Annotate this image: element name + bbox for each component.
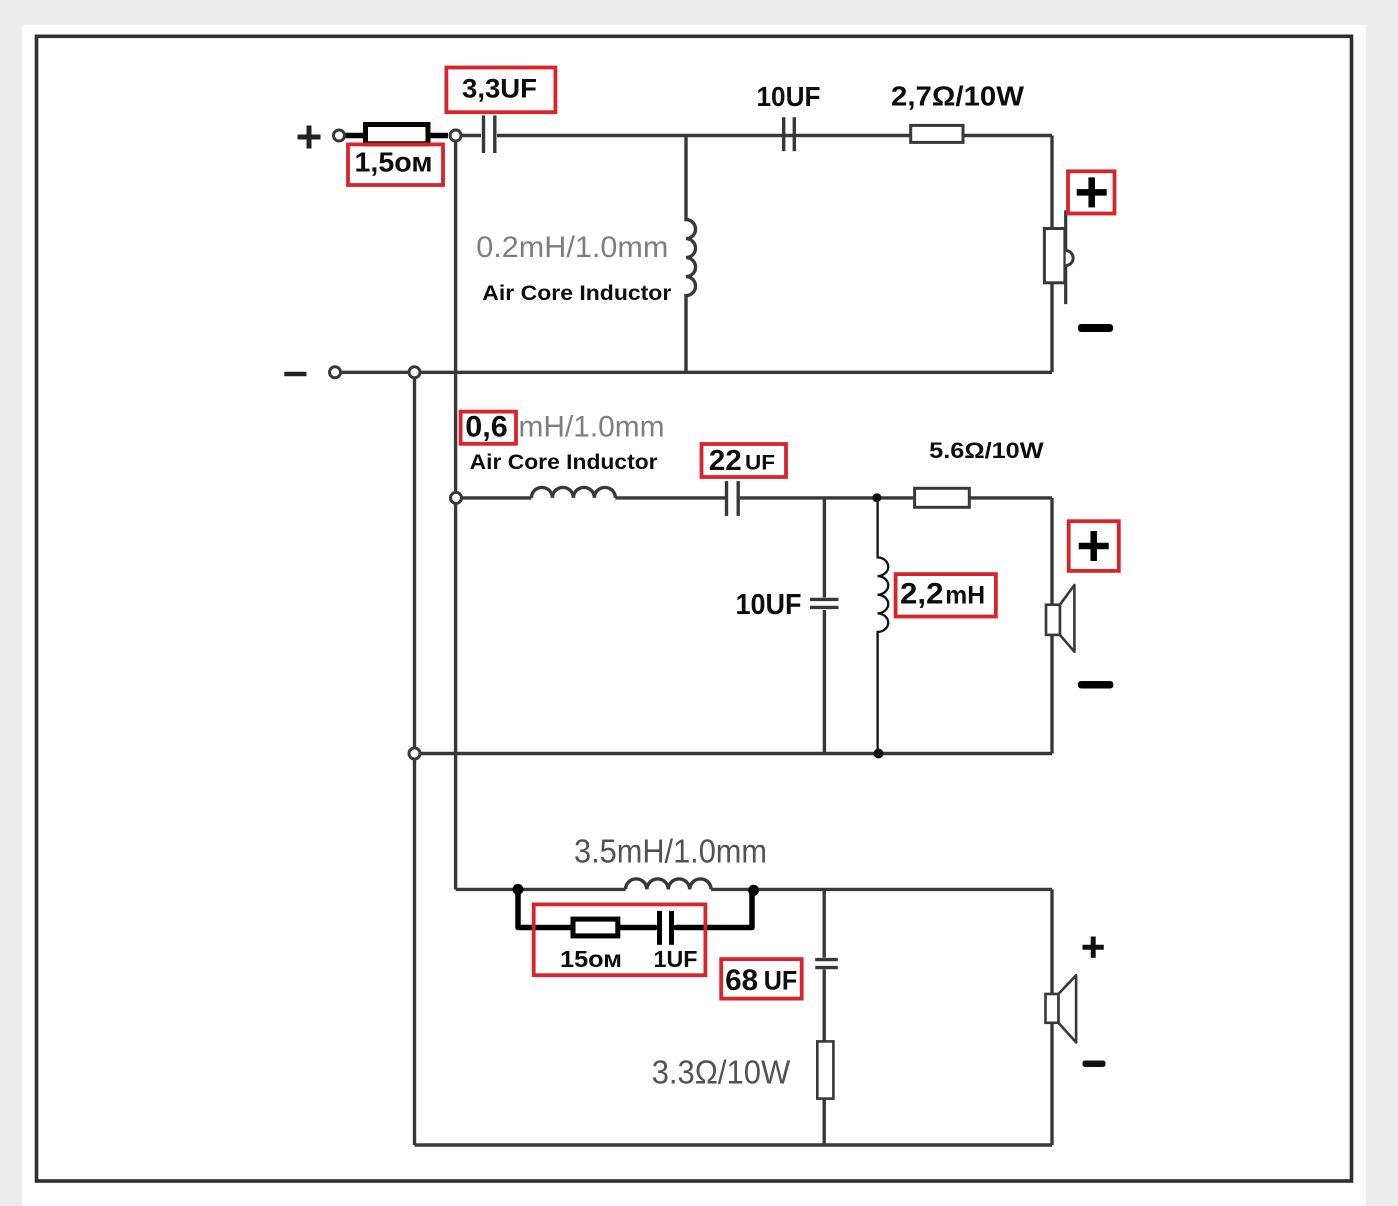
svg-text:mH/1.0mm: mH/1.0mm <box>519 411 665 444</box>
woofer plus polarity mark <box>1083 937 1104 958</box>
svg-text:10UF: 10UF <box>757 81 821 112</box>
tweeter minus polarity mark <box>1078 324 1113 332</box>
node: minus bus junction <box>409 367 420 378</box>
resistor R 15om (thick black) <box>573 919 618 936</box>
value label 0,6 (red boxed) + mH/1.0mm <box>461 411 665 444</box>
svg-text:3,3UF: 3,3UF <box>462 74 537 104</box>
capacitor C 22UF <box>727 481 739 516</box>
midrange minus polarity mark <box>1078 681 1113 689</box>
value label 3,3UF (red boxed) <box>446 68 555 113</box>
svg-text:UF: UF <box>745 451 775 475</box>
capacitor C 10UF (top) <box>784 117 795 151</box>
wire: woofer feed <box>456 888 626 891</box>
capacitor C 3,3UF <box>484 115 495 153</box>
value label 68UF (red boxed) <box>721 959 802 999</box>
inductor L1 0.2mH air core (vertical) <box>686 137 696 371</box>
svg-text:10UF: 10UF <box>736 589 802 621</box>
wire: 10UF shunt branch vertical <box>823 498 826 598</box>
resistor R 1,5om (thick black, added) <box>345 125 448 144</box>
tweeter speaker symbol <box>1044 210 1073 304</box>
plus input terminal symbol <box>298 126 321 149</box>
capacitor C 68UF <box>815 960 838 968</box>
polarity label + (red boxed, tweeter) <box>1068 171 1115 213</box>
wire: top rail from 3.3UF cap to top-right corner <box>497 134 1052 137</box>
minus input terminal symbol <box>284 372 306 377</box>
svg-text:1,5ом: 1,5ом <box>355 147 433 178</box>
svg-text:0.2mH/1.0mm: 0.2mH/1.0mm <box>476 231 668 264</box>
value labels 15om and 1UF (red boxed) <box>534 904 706 975</box>
wire: right vertical of tweeter loop <box>1050 136 1053 373</box>
capacitor C 1UF (thick black) <box>660 911 672 945</box>
wire: vertical bus B from minus node down to bottom rail <box>413 372 416 1145</box>
junction node dot (bottom of 2,2mH) <box>874 749 884 759</box>
value label 22UF (red boxed) <box>702 444 787 477</box>
wire: 68UF / 3.3ohm branch vertical <box>823 889 826 957</box>
capacitor C 10UF (mid shunt) <box>810 599 839 607</box>
value label 1,5om (red boxed) <box>348 144 443 185</box>
svg-text:mH: mH <box>945 582 985 610</box>
node: plus input terminal <box>334 130 345 141</box>
wire: midrange right vertical <box>1050 498 1053 754</box>
svg-text:15ом: 15ом <box>560 946 622 972</box>
svg-text:UF: UF <box>764 966 798 996</box>
svg-text:3.5mH/1.0mm: 3.5mH/1.0mm <box>574 833 767 870</box>
node: midrange input <box>451 492 462 503</box>
svg-text:5.6Ω/10W: 5.6Ω/10W <box>929 438 1044 463</box>
node: midrange bottom rail junction <box>409 748 420 759</box>
woofer speaker symbol <box>1046 975 1077 1042</box>
node: plus bus junction <box>450 130 461 141</box>
wire: node to 3.3UF cap <box>455 134 481 137</box>
svg-text:1UF: 1UF <box>654 946 698 972</box>
junction dot right of 3.5mH <box>748 885 759 896</box>
resistor R 2,7ohm/10W <box>911 125 963 142</box>
wire: woofer right vertical <box>1050 889 1053 1145</box>
node: minus input terminal <box>330 367 341 378</box>
wire: woofer bottom rail <box>415 1143 1053 1146</box>
svg-text:0,6: 0,6 <box>465 411 508 444</box>
value label 2,2mH (red boxed) <box>896 574 996 616</box>
svg-text:2,2: 2,2 <box>900 578 944 611</box>
svg-text:2,7Ω/10W: 2,7Ω/10W <box>891 81 1025 112</box>
inductor L2 0,6mH air core (horizontal) <box>531 487 615 498</box>
thick black RC bypass branch wire <box>518 890 752 928</box>
svg-text:22: 22 <box>709 445 742 477</box>
svg-text:3.3Ω/10W: 3.3Ω/10W <box>652 1055 791 1092</box>
midrange speaker symbol <box>1046 585 1074 652</box>
svg-text:Air Core Inductor: Air Core Inductor <box>482 282 671 305</box>
junction node dot (top of 2,2mH) <box>872 493 881 502</box>
polarity label + (red boxed, midrange) <box>1069 521 1119 571</box>
svg-text:68: 68 <box>725 964 758 997</box>
inductor L3 2,2mH (vertical thin black) <box>878 498 889 753</box>
woofer minus polarity mark <box>1083 1061 1106 1068</box>
inductor L4 3.5mH (horizontal) <box>626 879 712 890</box>
wire: vertical bus A from plus node down to woofer feed <box>454 136 457 890</box>
resistor R 5.6ohm/10W <box>915 488 970 507</box>
wire: midrange bottom rail <box>415 752 1053 755</box>
svg-text:Air Core Inductor: Air Core Inductor <box>470 451 658 474</box>
resistor R 3.3ohm/10W (vertical) <box>817 1041 833 1098</box>
wire: minus rail (top section bottom) <box>337 371 1052 374</box>
junction dot left of 3.5mH <box>513 884 524 895</box>
wire: midrange top rail <box>456 496 531 499</box>
